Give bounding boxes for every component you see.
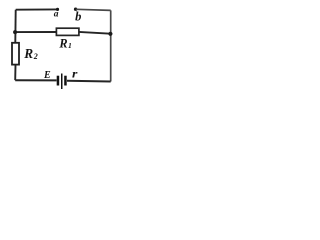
svg-text:E: E xyxy=(43,70,51,81)
svg-text:a: a xyxy=(54,10,59,20)
svg-text:b: b xyxy=(75,9,81,23)
svg-text:2: 2 xyxy=(33,52,38,61)
svg-text:R: R xyxy=(58,36,67,50)
svg-text:1: 1 xyxy=(68,41,72,50)
svg-text:r: r xyxy=(72,69,78,81)
svg-text:R: R xyxy=(23,46,33,61)
